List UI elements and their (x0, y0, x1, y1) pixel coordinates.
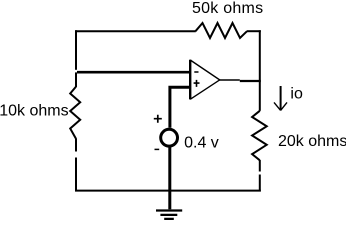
resistor 20k ohms (252, 111, 267, 161)
wire 10k bottom lead (lower piece, after small gap) (75, 158, 77, 192)
voltage source minus sign (155, 148, 160, 150)
resistor 10k ohms (70, 87, 80, 139)
voltage source V1 (0.4 v) circle (161, 129, 178, 146)
svg-text:50k ohms: 50k ohms (192, 0, 263, 17)
svg-text:io: io (290, 85, 303, 102)
svg-text:10k ohms: 10k ohms (0, 102, 69, 119)
wire top feedback (node A to 50k left lead) (75, 30, 196, 32)
wire 50k right lead to right vertical (247, 30, 261, 32)
ground symbol (156, 211, 182, 219)
wire right vertical (top corner to 20k top) (259, 30, 261, 111)
current arrow io (274, 86, 287, 110)
wire bottom rail (75, 190, 261, 192)
wire 20k bottom lead (lower piece, after small gap) (259, 175, 261, 192)
wire 10k bottom lead (upper piece) (75, 139, 77, 152)
op-amp U1 left edge (189, 60, 191, 100)
voltage source plus sign (154, 115, 162, 123)
svg-text:0.4 v: 0.4 v (184, 134, 219, 151)
resistor 50k ohms (feedback) (196, 23, 248, 38)
wire inverting input (node A to op-amp minus) (77, 71, 190, 74)
wire op-amp output (thin segment from tip) (220, 79, 240, 81)
svg-text:20k ohms: 20k ohms (278, 133, 346, 150)
op-amp minus input label (194, 71, 198, 73)
op-amp plus input label (194, 80, 200, 87)
wire source bottom to ground (168, 147, 171, 210)
wire left vertical (top corner down to inverting junction) (75, 30, 77, 70)
wire left vertical (junction to 10k top) (75, 72, 77, 87)
wire op-amp output (thicker segment to right vertical) (240, 80, 261, 82)
op-amp U1 triangle slants (190, 60, 220, 99)
wire 20k bottom lead (upper piece) (259, 160, 261, 172)
wire non-inverting input (source top to op-amp plus) (170, 87, 190, 128)
